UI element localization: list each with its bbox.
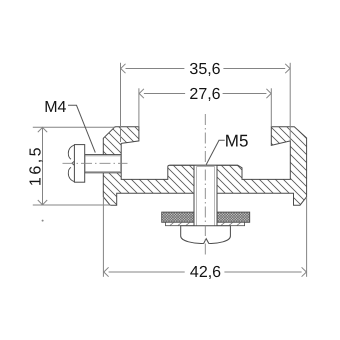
rail adapter body cross-section — [103, 127, 306, 205]
screw M4 shaft — [85, 155, 121, 173]
centerline M5 screw axis — [204, 114, 206, 258]
washer serration strip — [166, 222, 245, 225]
svg-text:16,5: 16,5 — [28, 145, 45, 186]
svg-text:27,6: 27,6 — [189, 86, 220, 103]
dimension 35,6 — [121, 63, 291, 142]
boss top edge over hole — [170, 164, 238, 166]
svg-text:42,6: 42,6 — [190, 264, 221, 281]
screw M4 head (slotted cheese head) — [68, 145, 84, 183]
svg-text:M5: M5 — [225, 131, 249, 150]
screw M5 head (slotted pan head, below) — [181, 226, 231, 244]
label M4 with leader — [44, 99, 95, 153]
washer (serrated clamping washer) — [162, 212, 250, 222]
stray dot mark — [42, 220, 44, 222]
dimension 42,6 — [103, 197, 306, 277]
svg-text:M4: M4 — [44, 99, 66, 116]
dimension 16,5 — [33, 127, 116, 205]
svg-text:35,6: 35,6 — [189, 61, 220, 78]
screw M5 shaft — [194, 165, 217, 226]
dimension 27,6 — [139, 88, 271, 127]
centerline M4 screw axis — [63, 162, 128, 164]
label M5 with leader — [206, 131, 248, 164]
